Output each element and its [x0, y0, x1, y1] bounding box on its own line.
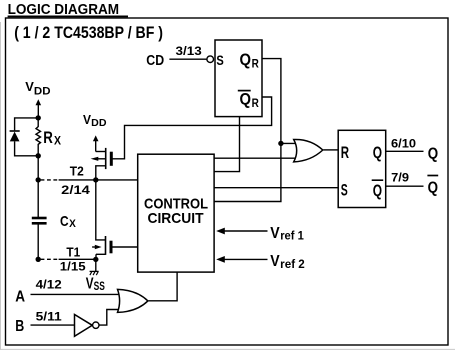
wire CD input [169, 58, 207, 60]
svg-text:CD: CD [146, 53, 164, 69]
wire B input [31, 324, 75, 326]
svg-text:2/14: 2/14 [61, 183, 90, 197]
svg-text:R: R [341, 144, 349, 162]
svg-text:X: X [69, 218, 76, 230]
wire T2 dashed [41, 179, 59, 181]
svg-text:DD: DD [34, 86, 51, 98]
svg-text:5/11: 5/11 [36, 309, 62, 323]
label VDD (M1) [83, 112, 107, 129]
svg-text:CONTROL: CONTROL [144, 196, 208, 212]
svg-text:B: B [15, 318, 24, 335]
wire Q-bar output [386, 185, 424, 187]
svg-text:1/15: 1/15 [60, 260, 86, 274]
svg-text:X: X [54, 134, 61, 147]
transistor M2 (NMOS) [105, 236, 107, 255]
svg-text:V: V [25, 79, 34, 94]
overbar of QR-bar [238, 90, 251, 92]
svg-text:Q: Q [428, 180, 438, 197]
node T2 / M1 drain [93, 177, 98, 182]
svg-text:7/9: 7/9 [391, 171, 409, 185]
svg-text:( 1 / 2 TC4538BP / BF ): ( 1 / 2 TC4538BP / BF ) [14, 23, 163, 42]
label Vref1 [270, 225, 304, 243]
svg-text:C: C [60, 213, 69, 230]
label T1 [66, 244, 80, 259]
svg-text:T1: T1 [66, 244, 80, 259]
subtitle (1/2 TC4538BP/BF) [14, 23, 163, 42]
wire OR1 output to R [323, 149, 338, 151]
wire to diode branch [15, 118, 39, 130]
wire T1 solid [59, 258, 96, 260]
pin label 3/13 [176, 45, 203, 58]
Vref1 arrow into control circuit [222, 230, 268, 232]
pin label Q-bar (U2) [373, 182, 382, 200]
pin label S (U1) [216, 53, 223, 68]
wire Q output [386, 150, 424, 152]
label CD [146, 53, 164, 69]
wire QR-bar to M1 gate [112, 97, 271, 159]
wire inverter output to OR2 [99, 310, 126, 326]
wire control to latch U2 S input [214, 187, 338, 189]
svg-text:R: R [43, 128, 53, 147]
label B input [15, 318, 24, 335]
pin label 1/15 [60, 260, 86, 274]
svg-text:R: R [252, 96, 259, 110]
pin label 7/9 [391, 171, 409, 185]
pin label 5/11 [36, 309, 62, 323]
arrow VDD up (M1) [93, 135, 99, 141]
diode D1 [10, 130, 20, 132]
pin label Q (U2) [373, 144, 382, 162]
wire M1 source to T2 and down to M2 drain [96, 166, 106, 240]
node top of RX [36, 115, 41, 120]
label RX [43, 128, 61, 147]
pin label QR-bar (U1) [240, 91, 259, 110]
svg-text:V: V [270, 225, 280, 242]
svg-text:SS: SS [94, 280, 105, 293]
node bottom of RX [36, 153, 41, 158]
svg-text:R: R [252, 57, 259, 71]
node QR to OR1 junction [278, 141, 283, 146]
node T1 rail [36, 257, 41, 262]
pin label S (U2) [341, 182, 348, 200]
wire rail to T2 node [37, 156, 39, 180]
latch U1 box [215, 40, 262, 117]
wire QR output net [214, 59, 281, 202]
arrow VDD up (left rail) [36, 99, 42, 105]
wire diode bottom [15, 141, 39, 155]
svg-text:Q: Q [373, 182, 382, 200]
svg-text:S: S [341, 182, 348, 200]
wire QR branch to OR1 input [281, 142, 301, 144]
svg-text:S: S [216, 53, 223, 68]
pin label 6/10 [391, 137, 416, 151]
svg-text:A: A [15, 288, 25, 305]
node T2 rail [36, 177, 41, 182]
pin label 4/12 [36, 278, 62, 292]
label Q-bar output [428, 180, 438, 197]
label VSS [86, 276, 105, 293]
svg-text:V: V [83, 112, 91, 127]
OR gate G2 [118, 289, 148, 312]
OR gate G1 [294, 139, 323, 161]
label CX [60, 213, 77, 230]
transistor M1 (PMOS) [105, 148, 107, 169]
pin label QR (U1) [240, 51, 259, 70]
pin label 2/14 [61, 183, 90, 197]
overbar of Q-bar (U2) [372, 179, 384, 181]
node T1 / M2 source [93, 257, 98, 262]
wire OR2 output to control circuit [148, 272, 177, 301]
wire A input [31, 293, 127, 295]
wire control to OR1 lower input [214, 157, 301, 159]
pin label R (U2) [341, 144, 349, 162]
label VDD (left rail) [25, 79, 50, 98]
label Q output [428, 146, 438, 163]
label T2 [70, 164, 84, 179]
svg-text:Q: Q [373, 144, 382, 162]
inverter G3 [75, 315, 93, 337]
svg-text:DD: DD [91, 118, 106, 129]
svg-text:Q: Q [240, 51, 252, 69]
label CONTROL CIRCUIT [144, 196, 208, 227]
svg-text:T2: T2 [70, 164, 84, 179]
svg-text:4/12: 4/12 [36, 278, 62, 292]
svg-text:3/13: 3/13 [176, 45, 203, 58]
control circuit box [138, 154, 214, 272]
wire T1 to ground [95, 259, 97, 271]
capacitor CX [32, 217, 47, 220]
svg-text:ref 1: ref 1 [280, 230, 304, 243]
wire T2 solid to control box [59, 179, 138, 181]
wire T1 dashed [41, 258, 59, 260]
Vref2 arrow into control circuit [222, 258, 268, 260]
wire U1 bottom output to control circuit [214, 117, 239, 172]
resistor RX [36, 118, 41, 156]
svg-text:V: V [270, 253, 280, 270]
overbar of Q-bar output [427, 175, 438, 177]
svg-text:ref 2: ref 2 [280, 258, 305, 271]
label Vref2 [270, 253, 305, 271]
svg-text:Q: Q [428, 146, 438, 163]
svg-text:CIRCUIT: CIRCUIT [148, 211, 204, 227]
wire capacitor to T1 node [37, 224, 39, 260]
title LOGIC DIAGRAM [8, 1, 120, 18]
label A input [15, 288, 25, 305]
svg-text:Q: Q [240, 91, 252, 109]
inverting bubble on S of latch U1 [207, 56, 214, 63]
latch U2 box [338, 130, 386, 207]
wire M2 gate to control box [111, 246, 138, 248]
title underline [8, 15, 128, 17]
svg-text:6/10: 6/10 [391, 137, 416, 151]
wire rail to capacitor [37, 180, 39, 217]
ground VSS [90, 270, 99, 272]
